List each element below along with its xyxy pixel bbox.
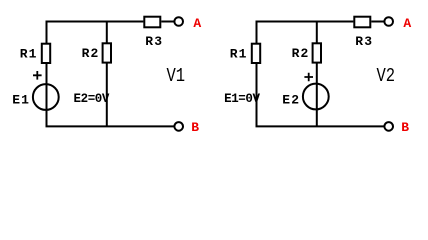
- wire: middle branch vertical: [316, 22, 318, 127]
- terminal A: [384, 17, 393, 26]
- terminal B: [384, 122, 393, 131]
- svg-text:E2: E2: [282, 92, 300, 107]
- svg-text:E1: E1: [12, 92, 30, 107]
- wire: bottom horizontal: [256, 125, 385, 127]
- terminal A: [174, 17, 183, 26]
- resistor R2: [313, 43, 321, 62]
- wire: bottom horizontal: [46, 125, 175, 127]
- wire: top horizontal: [46, 21, 144, 23]
- svg-text:E1=0V: E1=0V: [224, 92, 260, 106]
- plus sign of E2: [304, 73, 313, 82]
- resistor R1: [42, 44, 50, 63]
- wire: R3 to terminal A: [161, 21, 174, 23]
- voltage source E2: [303, 84, 329, 110]
- svg-text:R2: R2: [82, 46, 100, 61]
- wire: R3 to terminal A: [371, 21, 384, 23]
- wire: middle branch vertical: [106, 22, 108, 127]
- resistor R1: [252, 44, 260, 63]
- svg-text:R1: R1: [20, 46, 38, 61]
- voltage source E1: [33, 84, 59, 110]
- svg-text:R2: R2: [292, 46, 310, 61]
- svg-text:A: A: [403, 16, 411, 31]
- wire: left branch vertical: [256, 22, 258, 127]
- terminal B: [174, 122, 183, 131]
- wire: top horizontal: [256, 21, 354, 23]
- svg-text:R3: R3: [355, 34, 373, 49]
- svg-text:E2=0V: E2=0V: [74, 92, 110, 106]
- svg-text:B: B: [191, 120, 199, 135]
- svg-text:A: A: [193, 16, 201, 31]
- svg-text:V2: V2: [377, 65, 396, 87]
- svg-text:V1: V1: [167, 65, 186, 87]
- resistor R2: [103, 43, 111, 62]
- resistor R3: [354, 17, 370, 28]
- resistor R3: [144, 17, 160, 28]
- svg-text:B: B: [401, 120, 409, 135]
- plus sign of E1: [33, 71, 42, 80]
- svg-text:R3: R3: [145, 34, 163, 49]
- svg-text:R1: R1: [230, 46, 248, 61]
- wire: left branch vertical: [46, 22, 48, 127]
